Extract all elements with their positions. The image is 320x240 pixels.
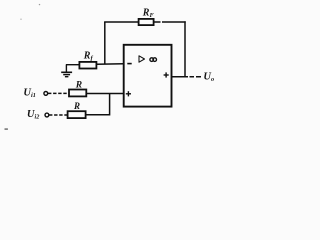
wire: R2 output right then up to junction with R1 wire	[86, 94, 110, 115]
gain triangle symbol	[139, 56, 145, 62]
pin marker: noninverting input plus	[126, 91, 131, 96]
svg-text:Ui2: Ui2	[27, 109, 39, 121]
ground	[61, 64, 72, 76]
wire: top feedback horizontal, right of RF	[154, 21, 186, 23]
wire: ground to Rf	[66, 64, 80, 66]
scan speck	[39, 4, 40, 5]
resistor RF	[139, 19, 154, 25]
scan speck	[20, 18, 22, 20]
wire: op-amp output to Uo terminal	[172, 76, 202, 78]
pin marker: inverting input minus	[127, 63, 131, 65]
terminal Ui2	[45, 113, 49, 117]
wire: feedback tap vertical from inverting node up	[104, 22, 106, 64]
wire: feedback right vertical down to output node	[184, 21, 186, 77]
resistor Rf	[79, 62, 96, 69]
wire: Ui1 terminal to R (scanned dashed)	[48, 92, 69, 94]
svg-text:R: R	[73, 101, 80, 111]
wire: R1 to noninverting input	[86, 93, 123, 95]
svg-text:Uo: Uo	[203, 71, 214, 83]
wire: Ui2 terminal to R (scanned dashed)	[49, 114, 68, 116]
svg-text:RF: RF	[142, 7, 155, 19]
scan speck	[5, 128, 8, 130]
resistor R2	[68, 111, 86, 118]
wire: top feedback horizontal, left of RF	[104, 21, 139, 23]
svg-text:Ui1: Ui1	[23, 88, 35, 100]
svg-text:Rf: Rf	[83, 51, 94, 63]
op-amp body rectangle	[124, 45, 172, 107]
terminal Ui1	[44, 92, 48, 96]
pin marker: output plus polarity	[164, 72, 169, 77]
op-amp U1	[124, 45, 172, 107]
infinity gain symbol	[150, 58, 157, 62]
svg-text:R: R	[75, 81, 82, 91]
wire: Rf to inverting input of op-amp	[97, 63, 124, 66]
resistor R1	[69, 90, 86, 97]
